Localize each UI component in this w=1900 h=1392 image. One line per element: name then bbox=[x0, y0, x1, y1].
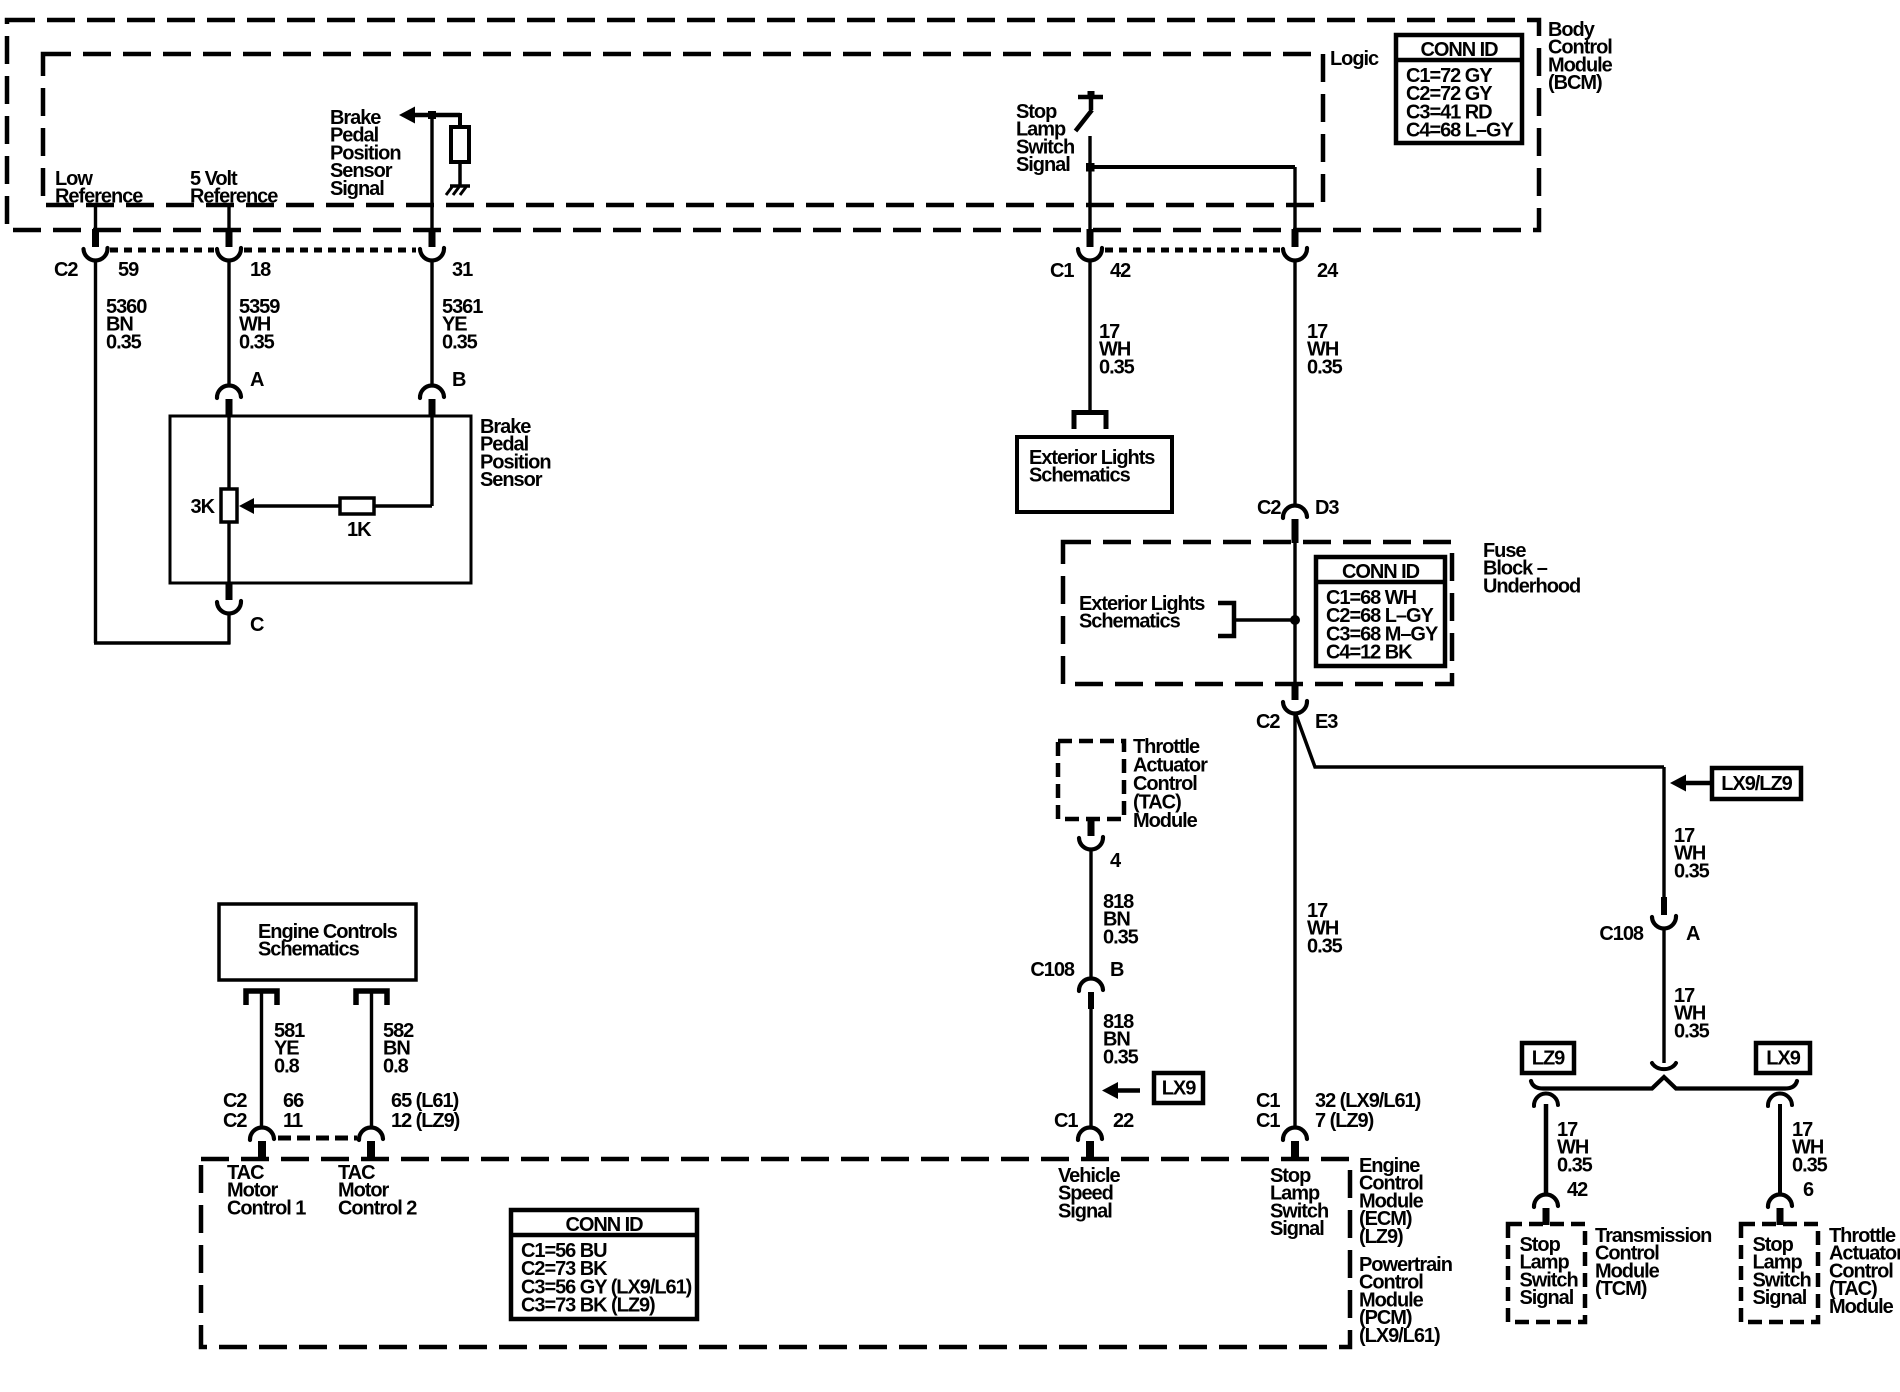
svg-text:C108: C108 bbox=[1030, 959, 1075, 981]
svg-text:0.8: 0.8 bbox=[274, 1055, 300, 1077]
svg-text:Logic: Logic bbox=[1330, 48, 1379, 70]
Stop Lamp Switch Signal label (ECM) bbox=[1270, 1165, 1328, 1240]
wire 5359 WH 0.35 bbox=[229, 262, 280, 384]
svg-text:E3: E3 bbox=[1315, 711, 1338, 733]
wire 581 YE 0.8 bbox=[262, 992, 306, 1127]
wire: E3 to ECM stop lamp input bbox=[1295, 715, 1343, 1127]
pin labels C1 32/7 bbox=[1256, 1090, 1421, 1132]
svg-text:C4=68 L–GY: C4=68 L–GY bbox=[1406, 120, 1514, 142]
svg-text:LX9/LZ9: LX9/LZ9 bbox=[1721, 773, 1792, 795]
harness hat connector (exterior lights) bbox=[1074, 413, 1106, 430]
BCM label bbox=[1548, 19, 1613, 94]
wire: sensor signal vertical (pin 31) bbox=[430, 115, 433, 230]
svg-text:3K: 3K bbox=[191, 496, 216, 518]
svg-text:32 (LX9/L61): 32 (LX9/L61) bbox=[1315, 1090, 1421, 1112]
brace splitting LZ9/LX9 bbox=[1531, 1077, 1797, 1089]
ground (chassis) bbox=[446, 186, 470, 195]
wire 818 BN 0.35 (lower) bbox=[1091, 1009, 1139, 1127]
svg-text:24: 24 bbox=[1317, 260, 1339, 282]
TAC Motor Control 2 label bbox=[338, 1162, 417, 1220]
wire: 5V reference drop bbox=[227, 205, 230, 230]
svg-text:0.35: 0.35 bbox=[1103, 1046, 1139, 1068]
svg-text:C2: C2 bbox=[1257, 497, 1281, 519]
svg-text:Sensor: Sensor bbox=[480, 469, 543, 491]
svg-text:C1: C1 bbox=[1256, 1090, 1280, 1112]
harness hat (TAC motor 2) bbox=[356, 991, 387, 1005]
wire 818 BN 0.35 (upper) bbox=[1091, 851, 1139, 977]
wire: E3 branch to C108 A bbox=[1296, 715, 1664, 897]
svg-text:C2: C2 bbox=[223, 1090, 247, 1112]
svg-text:CONN ID: CONN ID bbox=[1342, 561, 1420, 583]
connector C2 pin 18 bbox=[217, 229, 241, 261]
connector TAC pin 4 bbox=[1079, 819, 1122, 872]
wire: pin A to potentiometer bbox=[227, 416, 230, 489]
arrow from LX9 tag bbox=[1102, 1082, 1140, 1099]
svg-text:42: 42 bbox=[1567, 1179, 1588, 1201]
svg-text:Signal: Signal bbox=[1058, 1200, 1112, 1222]
svg-text:6: 6 bbox=[1803, 1179, 1814, 1201]
connector C2 pin D3 bbox=[1257, 497, 1339, 543]
svg-text:0.35: 0.35 bbox=[1557, 1154, 1593, 1176]
wire through fuse block bbox=[1293, 543, 1296, 684]
svg-text:Schematics: Schematics bbox=[1079, 611, 1181, 633]
svg-text:0.35: 0.35 bbox=[239, 331, 275, 353]
svg-text:CONN ID: CONN ID bbox=[1420, 39, 1498, 61]
connector C1 pin 32/7 bbox=[1283, 1127, 1307, 1161]
svg-text:Signal: Signal bbox=[1270, 1218, 1324, 1240]
wire 5360 BN 0.35 bbox=[96, 262, 148, 643]
svg-text:7 (LZ9): 7 (LZ9) bbox=[1315, 1110, 1374, 1132]
svg-text:Schematics: Schematics bbox=[258, 939, 360, 961]
svg-text:Control 2: Control 2 bbox=[338, 1197, 417, 1219]
svg-text:0.35: 0.35 bbox=[1307, 356, 1343, 378]
connector C108 pin B bbox=[1030, 959, 1124, 1009]
connector pin C bbox=[217, 583, 264, 636]
Stop Lamp Switch Signal box (TCM) bbox=[1508, 1224, 1585, 1322]
svg-text:Signal: Signal bbox=[1016, 154, 1070, 176]
wire: pin C return to pin 59 bbox=[94, 615, 231, 644]
resistor 1K bbox=[252, 498, 432, 541]
CONN ID table U3 (ECM/PCM) bbox=[511, 1210, 697, 1319]
node label: Stop Lamp Switch Signal (BCM) bbox=[1016, 101, 1074, 176]
node label: 5 Volt Reference bbox=[190, 168, 278, 208]
wire 17 WH 0.35 below C108 A bbox=[1664, 930, 1710, 1063]
svg-text:C1: C1 bbox=[1050, 260, 1074, 282]
tag LX9 (right) bbox=[1756, 1043, 1810, 1073]
tag LX9/LZ9 bbox=[1712, 768, 1801, 799]
svg-text:Signal: Signal bbox=[1753, 1287, 1807, 1309]
svg-text:11: 11 bbox=[283, 1110, 303, 1132]
svg-text:LX9: LX9 bbox=[1766, 1047, 1800, 1069]
wire: branch to pin 24 bbox=[1090, 167, 1295, 230]
svg-text:Control 1: Control 1 bbox=[227, 1197, 306, 1219]
Body Control Module (BCM) dashed box bbox=[7, 20, 1539, 230]
TCM label bbox=[1595, 1225, 1711, 1300]
svg-text:0.35: 0.35 bbox=[1103, 926, 1139, 948]
svg-text:66: 66 bbox=[283, 1090, 304, 1112]
svg-text:1K: 1K bbox=[347, 519, 372, 541]
svg-text:(LZ9): (LZ9) bbox=[1359, 1226, 1403, 1248]
svg-text:LZ9: LZ9 bbox=[1532, 1047, 1565, 1069]
connector TAC pin 6 bbox=[1768, 1194, 1792, 1225]
svg-text:0.35: 0.35 bbox=[1792, 1154, 1828, 1176]
potentiometer 3K bbox=[191, 489, 237, 522]
svg-text:65 (L61): 65 (L61) bbox=[391, 1090, 459, 1112]
svg-text:C2: C2 bbox=[223, 1110, 247, 1132]
svg-text:A: A bbox=[1686, 923, 1700, 945]
svg-text:0.35: 0.35 bbox=[1099, 356, 1135, 378]
resistor R1 (BCM internal) bbox=[451, 113, 469, 186]
svg-text:Reference: Reference bbox=[55, 186, 143, 208]
svg-text:(TCM): (TCM) bbox=[1595, 1278, 1647, 1300]
wiper arrow bbox=[239, 498, 254, 514]
svg-text:0.35: 0.35 bbox=[106, 331, 142, 353]
wire 17 WH 0.35 (pin 42) bbox=[1090, 262, 1135, 411]
svg-text:59: 59 bbox=[118, 259, 139, 281]
Engine Controls Schematics box bbox=[219, 904, 416, 980]
svg-text:Module: Module bbox=[1829, 1296, 1894, 1318]
svg-text:31: 31 bbox=[452, 259, 473, 281]
Fuse Block label bbox=[1483, 540, 1580, 598]
pin labels BCM row bbox=[54, 259, 1339, 282]
svg-text:0.35: 0.35 bbox=[1674, 1020, 1710, 1042]
wire: pin B into sensor bbox=[430, 417, 433, 506]
svg-text:42: 42 bbox=[1110, 260, 1131, 282]
wire 17 WH 0.35 to TAC pin 6 bbox=[1780, 1104, 1828, 1201]
wire 17 WH 0.35 (pin 24) bbox=[1295, 262, 1343, 505]
svg-text:C2: C2 bbox=[54, 259, 78, 281]
connector C2 pin E3 bbox=[1256, 684, 1338, 733]
svg-text:0.8: 0.8 bbox=[383, 1055, 409, 1077]
svg-text:0.35: 0.35 bbox=[1674, 860, 1710, 882]
CONN ID table U1 (BCM) bbox=[1396, 35, 1522, 143]
Vehicle Speed Signal label bbox=[1058, 1165, 1121, 1223]
Exterior Lights Schematics box 1 bbox=[1017, 437, 1172, 512]
connector C2 pin 65/12 bbox=[359, 1127, 383, 1161]
wire 17 WH 0.35 to TCM pin 42 bbox=[1546, 1104, 1593, 1201]
svg-text:Module: Module bbox=[1133, 810, 1198, 832]
svg-text:C1: C1 bbox=[1054, 1110, 1078, 1132]
connector C108 pin A bbox=[1599, 897, 1700, 945]
svg-text:12 (LZ9): 12 (LZ9) bbox=[391, 1110, 460, 1132]
arrow from LX9/LZ9 tag bbox=[1670, 775, 1712, 792]
svg-text:A: A bbox=[250, 369, 264, 391]
connector C2 pin 66/11 bbox=[250, 1127, 274, 1161]
connector pin A bbox=[217, 369, 264, 417]
pin labels TAC motor row bbox=[223, 1090, 460, 1132]
svg-text:C2: C2 bbox=[1256, 711, 1280, 733]
connector C2 pin 59 bbox=[84, 229, 108, 261]
Brake Pedal Position Sensor box bbox=[170, 416, 471, 583]
Logic dashed box bbox=[43, 54, 1323, 205]
branch pickup arc (LX9) bbox=[1768, 1093, 1792, 1106]
bracket to exterior lights bbox=[1218, 603, 1295, 636]
svg-text:Signal: Signal bbox=[1520, 1287, 1574, 1309]
svg-text:22: 22 bbox=[1113, 1110, 1134, 1132]
connector row dotted line (C1) bbox=[1105, 248, 1280, 253]
svg-text:Reference: Reference bbox=[190, 186, 278, 208]
connector TCM pin 42 bbox=[1534, 1194, 1558, 1225]
ECM label bbox=[1359, 1155, 1424, 1248]
wire 5361 YE 0.35 bbox=[432, 262, 483, 385]
svg-text:Underhood: Underhood bbox=[1483, 575, 1580, 597]
connector C1 pin 24 bbox=[1283, 229, 1307, 261]
svg-text:Schematics: Schematics bbox=[1029, 465, 1131, 487]
stop lamp switch S1 bbox=[1076, 91, 1104, 131]
junction in fuse block bbox=[1290, 615, 1300, 625]
TAC module label (right) bbox=[1829, 1225, 1900, 1318]
Logic label bbox=[1330, 48, 1379, 70]
svg-text:D3: D3 bbox=[1315, 497, 1339, 519]
svg-text:B: B bbox=[452, 369, 466, 391]
wire 582 BN 0.8 bbox=[372, 992, 415, 1127]
ECM/PCM dashed box bbox=[201, 1159, 1350, 1347]
svg-text:C1: C1 bbox=[1256, 1110, 1280, 1132]
CONN ID table U2 (fuse block) bbox=[1316, 557, 1445, 666]
Fuse Block - Underhood dashed box bbox=[1063, 542, 1452, 684]
Brake Pedal Position Sensor label bbox=[480, 416, 551, 491]
connector C1 pin 22 bbox=[1078, 1128, 1102, 1161]
svg-text:C4=12 BK: C4=12 BK bbox=[1326, 642, 1413, 664]
svg-text:(BCM): (BCM) bbox=[1548, 72, 1602, 94]
wire label 17 WH 0.35 (to C108 A) bbox=[1674, 825, 1710, 883]
svg-text:0.35: 0.35 bbox=[442, 331, 478, 353]
svg-text:C: C bbox=[250, 614, 264, 636]
node label: Brake Pedal Position Sensor Signal bbox=[330, 107, 401, 200]
tag LZ9 bbox=[1522, 1043, 1574, 1073]
connector row dotted (TAC motor) bbox=[278, 1136, 357, 1141]
svg-text:18: 18 bbox=[250, 259, 271, 281]
svg-text:CONN ID: CONN ID bbox=[565, 1214, 643, 1236]
node label: Low Reference bbox=[55, 168, 143, 208]
Stop Lamp Switch Signal box (TAC) bbox=[1741, 1224, 1818, 1322]
TAC Motor Control 1 label bbox=[227, 1162, 306, 1220]
Exterior Lights Schematics label 2 bbox=[1079, 593, 1205, 633]
svg-text:C108: C108 bbox=[1599, 923, 1644, 945]
junction on sensor signal wire bbox=[428, 111, 436, 119]
connector row dotted line (C2) bbox=[110, 248, 416, 253]
PCM label bbox=[1359, 1254, 1452, 1347]
Throttle Actuator Control (TAC) Module dashed box bbox=[1058, 741, 1124, 819]
wire: pot to pin C bbox=[227, 522, 230, 583]
branch pickup arc (LZ9) bbox=[1534, 1093, 1558, 1106]
svg-text:C3=73 BK (LZ9): C3=73 BK (LZ9) bbox=[521, 1295, 655, 1317]
TAC module label bbox=[1133, 736, 1208, 832]
wire: low reference drop bbox=[94, 205, 97, 230]
connector C1 pin 42 bbox=[1078, 229, 1102, 260]
harness hat (TAC motor 1) bbox=[246, 991, 277, 1005]
svg-text:B: B bbox=[1110, 959, 1124, 981]
pin labels C1 22 bbox=[1054, 1110, 1134, 1132]
svg-text:Signal: Signal bbox=[330, 178, 384, 200]
connector C2 pin 31 bbox=[420, 229, 444, 260]
arrow to Brake Pedal Position Sensor Signal bbox=[399, 107, 460, 124]
tag LX9 (left) bbox=[1154, 1073, 1203, 1103]
junction: switch signal branch bbox=[1086, 163, 1095, 172]
svg-text:(LX9/L61): (LX9/L61) bbox=[1359, 1325, 1440, 1347]
svg-text:LX9: LX9 bbox=[1162, 1077, 1196, 1099]
svg-text:0.35: 0.35 bbox=[1307, 935, 1343, 957]
wire: switch to pin 42 bbox=[1088, 136, 1091, 230]
connector pin B bbox=[420, 369, 466, 417]
splice arc at branch bbox=[1652, 1063, 1676, 1069]
